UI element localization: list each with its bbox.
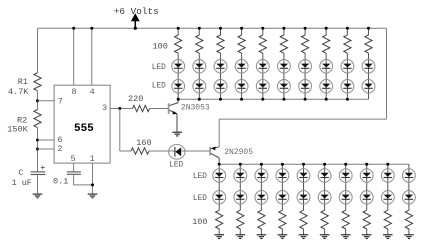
LED top col 5 row 1 <box>256 59 269 73</box>
resistor 100 (top col 6) <box>280 35 287 53</box>
ground bottom col 4 <box>278 235 288 239</box>
svg-text:160: 160 <box>136 138 151 148</box>
wire: branch corner to 160 resistor <box>120 150 131 152</box>
node: junction pin7 / R1-R2 <box>36 99 39 102</box>
node: junction pin6 <box>36 139 39 142</box>
resistor 100 (top col 5) <box>259 35 266 53</box>
svg-text:2N3053: 2N3053 <box>181 103 210 112</box>
LED bottom col 2 row 2 <box>234 190 247 204</box>
wire: pin 4 stub to +6V rail <box>91 28 93 85</box>
ground bottom col 5 <box>299 235 309 239</box>
node: top col 1 on +6V rail <box>177 27 180 30</box>
wire: between R1 and R2 <box>37 91 39 110</box>
bottom array column 6: wire <box>324 164 326 235</box>
resistor 100 (bottom col 7) <box>342 210 349 229</box>
transistor Q1 2N3053 <box>169 99 179 114</box>
LED top col 6 row 1 <box>277 59 290 73</box>
top array column 9: wire <box>346 28 348 99</box>
resistor 100 (bottom col 1) <box>216 210 223 229</box>
node: top col 1 on collector bus <box>177 98 180 101</box>
LED bottom col 5 row 1 <box>297 168 310 182</box>
transistor Q2 2N2905 <box>210 147 219 165</box>
LED bottom col 9 row 2 <box>381 190 394 204</box>
ground under 2N3053 emitter <box>172 132 182 136</box>
top array column 8: wire <box>325 28 327 99</box>
node: top col 6 on +6V rail <box>282 27 285 30</box>
bottom array column 10: wire <box>408 164 410 235</box>
ground bottom col 3 <box>257 235 267 239</box>
bottom array column 3: wire <box>260 164 262 235</box>
resistor 100 (bottom col 3) <box>258 210 265 229</box>
svg-text:100: 100 <box>192 217 207 227</box>
node: top col 2 on +6V rail <box>198 27 201 30</box>
svg-text:LED: LED <box>169 162 183 170</box>
bottom array column 7: wire <box>345 164 347 235</box>
node: top col 5 on collector bus <box>261 98 264 101</box>
node: bottom col 3 on collector bus <box>260 163 263 166</box>
ground bottom col 7 <box>341 235 351 239</box>
wire: top array bottom rail (2N3053 collector bus) <box>178 98 368 100</box>
LED top col 10 row 1 <box>362 59 375 73</box>
node: bottom col 6 on collector bus <box>323 163 326 166</box>
LED top col 9 row 2 <box>341 79 354 93</box>
svg-text:1: 1 <box>90 154 95 164</box>
resistor 100 (bottom col 9) <box>384 210 391 229</box>
LED top col 8 row 2 <box>320 79 333 93</box>
op-amp/timer U1 555 box <box>54 85 110 163</box>
LED top col 2 row 2 <box>193 79 206 93</box>
wire: pin 1 stub down to ground <box>92 163 94 194</box>
LED top col 9 row 1 <box>341 59 354 73</box>
LED bottom col 3 row 2 <box>255 190 268 204</box>
bottom array column 5: wire <box>303 164 305 235</box>
top array column 5: wire <box>262 28 264 99</box>
node: bottom col 9 on collector bus <box>386 163 389 166</box>
svg-text:555: 555 <box>74 123 94 135</box>
ground bottom col 1 <box>214 235 224 239</box>
svg-text:7: 7 <box>58 97 63 107</box>
top array column 10: wire <box>368 28 370 99</box>
LED bottom col 10 row 1 <box>402 168 415 182</box>
LED top col 4 row 1 <box>235 59 248 73</box>
LED bottom col 7 row 1 <box>339 168 352 182</box>
resistor 100 (bottom col 6) <box>321 210 328 229</box>
ground under pin 1 <box>88 194 98 198</box>
LED bottom col 7 row 2 <box>339 190 352 204</box>
LED bottom col 5 row 2 <box>297 190 310 204</box>
ground under C <box>33 194 43 198</box>
resistor 100 (bottom col 8) <box>363 210 370 229</box>
wire: pin 5 stub down to 0.1 cap <box>73 163 75 172</box>
wire: +6V top supply rail <box>38 27 387 29</box>
wire: pin 6 stub <box>38 139 55 141</box>
wire: branch vertical to 160 ohm branch <box>119 109 121 152</box>
LED top col 6 row 2 <box>277 79 290 93</box>
LED bottom col 3 row 1 <box>255 168 268 182</box>
svg-text:R1: R1 <box>18 77 28 87</box>
LED bottom col 8 row 1 <box>360 168 373 182</box>
node: junction of +6V arrow on rail <box>134 27 137 30</box>
node: pin3 branch junction <box>118 107 121 110</box>
LED bottom col 6 row 2 <box>318 190 331 204</box>
wire: C to ground <box>37 175 39 195</box>
resistor 100 (top col 10) <box>365 35 372 53</box>
bottom array column 4: wire <box>281 164 283 235</box>
node: top col 3 on collector bus <box>219 98 222 101</box>
wire: pin 7 stub <box>38 100 55 102</box>
node: top col 2 on collector bus <box>198 98 201 101</box>
LED top col 3 row 2 <box>214 79 227 93</box>
node: top col 4 on +6V rail <box>240 27 243 30</box>
node: top col 7 on +6V rail <box>304 27 307 30</box>
resistor 220 <box>133 105 150 111</box>
svg-text:+: + <box>40 163 45 173</box>
svg-text:C: C <box>19 168 24 178</box>
bottom array column 2: wire <box>239 164 241 235</box>
ground bottom col 9 <box>383 235 393 239</box>
resistor 100 (bottom col 2) <box>237 210 244 229</box>
capacitor 0.1 <box>67 172 81 174</box>
top array column 2: wire <box>198 28 200 99</box>
node: top col 5 on +6V rail <box>261 27 264 30</box>
resistor 100 (top col 8) <box>323 35 330 53</box>
LED bottom col 4 row 2 <box>276 190 289 204</box>
svg-text:2: 2 <box>57 144 62 154</box>
node: junction pin2 <box>36 148 39 151</box>
node: top col 7 on collector bus <box>304 98 307 101</box>
svg-text:4: 4 <box>90 87 95 97</box>
resistor 100 (top col 2) <box>196 35 203 53</box>
top array column 7: wire <box>304 28 306 99</box>
wire: R2 down to capacitor C <box>37 128 39 172</box>
node: 2N2905 collector junction <box>218 163 221 166</box>
bottom array column 8: wire <box>366 164 368 235</box>
LED bottom col 10 row 2 <box>402 190 415 204</box>
bottom array column 9: wire <box>387 164 389 235</box>
svg-text:LED: LED <box>193 195 207 203</box>
LED bottom col 4 row 1 <box>276 168 289 182</box>
top array column 3: wire <box>220 28 222 99</box>
node: top col 8 on collector bus <box>325 98 328 101</box>
svg-text:220: 220 <box>128 94 143 104</box>
resistor 100 (top col 1) <box>175 35 182 53</box>
svg-text:2N2905: 2N2905 <box>224 148 253 157</box>
LED bottom col 9 row 1 <box>381 168 394 182</box>
node: top col 10 on +6V rail <box>367 27 370 30</box>
resistor 100 (bottom col 4) <box>279 210 286 229</box>
node: bottom col 8 on collector bus <box>365 163 368 166</box>
node: top col 8 on +6V rail <box>325 27 328 30</box>
node: pin4 on rail <box>90 27 93 30</box>
svg-text:LED: LED <box>152 82 166 90</box>
LED bottom col 1 row 1 <box>213 168 226 182</box>
LED top col 7 row 1 <box>299 59 312 73</box>
svg-text:+6 Volts: +6 Volts <box>114 6 159 17</box>
node: junction 0.1 return on pin1 wire <box>91 183 94 186</box>
LED top col 1 row 2 <box>172 79 185 93</box>
wire: bottom array top rail (2N2905 collector bus) <box>219 163 409 165</box>
resistor 100 (bottom col 10) <box>405 210 412 229</box>
wire: 220 to 2N3053 base <box>150 108 169 110</box>
capacitor C 1uF <box>31 172 46 175</box>
LED bottom col 1 row 2 <box>213 190 226 204</box>
LED bottom col 6 row 1 <box>318 168 331 182</box>
resistor R1 <box>34 73 41 91</box>
svg-text:4.7K: 4.7K <box>8 87 29 97</box>
wire: 2N2905 emitter up to emitter rail <box>218 119 220 147</box>
node: top col 3 on +6V rail <box>219 27 222 30</box>
resistor 100 (top col 9) <box>344 35 351 53</box>
svg-text:LED: LED <box>152 64 166 72</box>
wire: left vertical from rail to R1 <box>37 28 39 72</box>
svg-text:100: 100 <box>153 41 168 51</box>
LED top col 2 row 1 <box>193 59 206 73</box>
top array column 4: wire <box>241 28 243 99</box>
LED top col 1 row 1 <box>172 59 185 73</box>
LED top col 10 row 2 <box>362 79 375 93</box>
resistor 160 <box>131 148 149 154</box>
svg-text:1 uF: 1 uF <box>12 178 32 188</box>
node: top col 6 on collector bus <box>282 98 285 101</box>
wire: pin 2 stub <box>38 148 55 150</box>
LED top col 5 row 2 <box>256 79 269 93</box>
ground bottom col 10 <box>404 235 414 239</box>
top array column 1: wire <box>177 28 179 99</box>
resistor R2 <box>34 110 41 128</box>
wire: pin 3 out to junction <box>110 108 132 110</box>
resistor 100 (top col 4) <box>238 35 245 53</box>
svg-text:5: 5 <box>71 154 76 164</box>
wire: LED to 2N2905 base <box>181 150 210 152</box>
LED indicator (horizontal) <box>169 145 185 160</box>
node: top col 4 on collector bus <box>240 98 243 101</box>
LED bottom col 2 row 1 <box>234 168 247 182</box>
LED top col 7 row 2 <box>299 79 312 93</box>
resistor 100 (top col 3) <box>217 35 224 53</box>
node: pin8 on rail <box>72 27 75 30</box>
node: bottom col 5 on collector bus <box>302 163 305 166</box>
wire: 2N3053 emitter to ground <box>176 114 178 132</box>
ground bottom col 8 <box>362 235 372 239</box>
node: bottom col 4 on collector bus <box>281 163 284 166</box>
node: top col 9 on +6V rail <box>346 27 349 30</box>
ground bottom col 2 <box>236 235 246 239</box>
LED bottom col 8 row 2 <box>360 190 373 204</box>
wire: 160 to indicator LED <box>149 150 175 152</box>
svg-text:0.1: 0.1 <box>53 176 68 186</box>
power symbol +6 Volts arrow <box>131 13 140 28</box>
node: bottom col 2 on collector bus <box>239 163 242 166</box>
node: top col 9 on collector bus <box>346 98 349 101</box>
wire: 0.1 cap bottom L to pin1 wire <box>74 174 93 185</box>
LED top col 3 row 1 <box>214 59 227 73</box>
top array column 6: wire <box>283 28 285 99</box>
resistor 100 (bottom col 5) <box>300 210 307 229</box>
svg-text:150K: 150K <box>7 125 28 135</box>
svg-text:LED: LED <box>193 173 207 181</box>
LED top col 8 row 1 <box>320 59 333 73</box>
svg-text:8: 8 <box>71 87 76 97</box>
svg-text:3: 3 <box>102 103 107 113</box>
ground bottom col 6 <box>320 235 330 239</box>
node: bottom col 7 on collector bus <box>344 163 347 166</box>
resistor 100 (top col 7) <box>302 35 309 53</box>
bottom array column 1: wire <box>218 164 220 235</box>
wire: right edge drop from +6V rail to 2N2905 emitter rail <box>386 28 388 119</box>
wire: pin 8 stub to +6V rail <box>73 28 75 85</box>
LED top col 4 row 2 <box>235 79 248 93</box>
wire: 2N2905 emitter rail <box>219 118 386 120</box>
